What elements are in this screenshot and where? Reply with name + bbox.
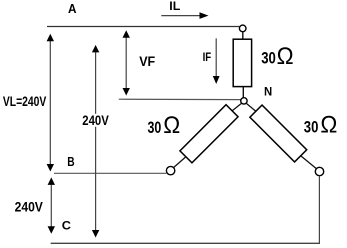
resistor R-A 30 ohm (vertical) bbox=[233, 39, 251, 86]
svg-text:Ω: Ω bbox=[320, 112, 337, 139]
svg-text:VL=240V: VL=240V bbox=[3, 93, 47, 109]
svg-text:IF: IF bbox=[203, 50, 212, 64]
resistor R-B 30 ohm (left diagonal) bbox=[180, 105, 238, 163]
wire node N to resistor B lead bbox=[232, 103, 241, 111]
arrow 240V (B to C) bbox=[48, 177, 55, 233]
svg-text:30: 30 bbox=[304, 118, 319, 137]
arrow 240V (A to C) bbox=[92, 45, 99, 238]
wire phase B bbox=[54, 172, 166, 174]
terminal A bbox=[239, 25, 246, 32]
wire terminal A to resistor bbox=[242, 32, 244, 39]
svg-text:C: C bbox=[62, 218, 71, 232]
arrow VL (line voltage) bbox=[47, 34, 54, 172]
arrow IF bbox=[213, 38, 220, 84]
wire phase A top bbox=[47, 26, 239, 28]
svg-text:A: A bbox=[68, 1, 77, 16]
arrow VF (phase voltage) bbox=[123, 30, 130, 95]
svg-text:30: 30 bbox=[148, 118, 162, 137]
svg-text:VF: VF bbox=[139, 53, 155, 69]
svg-text:B: B bbox=[67, 155, 74, 169]
wire resistor to node N bbox=[242, 87, 244, 98]
wire resistor C lead to terminal C bbox=[301, 156, 317, 169]
wire node N to resistor C lead bbox=[246, 103, 256, 111]
terminal C bbox=[315, 167, 323, 175]
node N bbox=[241, 98, 247, 104]
terminal B bbox=[166, 166, 174, 174]
svg-text:30: 30 bbox=[261, 48, 276, 67]
label 30 ohm (phase A) bbox=[261, 43, 293, 70]
svg-text:IL: IL bbox=[169, 1, 180, 13]
wire terminal C down to phase C bbox=[318, 176, 320, 244]
label 240V (A to C) bbox=[82, 113, 110, 128]
wire resistor B lead to terminal B bbox=[173, 157, 186, 169]
resistor R-C 30 ohm (right diagonal) bbox=[250, 105, 307, 162]
label 30 ohm (phase B) bbox=[148, 112, 181, 139]
svg-text:N: N bbox=[264, 84, 272, 98]
wire node N to VF reference point bbox=[119, 98, 241, 100]
wire phase C bottom bbox=[51, 242, 320, 244]
label 30 ohm (phase C) bbox=[304, 112, 338, 139]
svg-text:Ω: Ω bbox=[163, 112, 180, 139]
svg-text:240V: 240V bbox=[15, 200, 44, 215]
svg-text:Ω: Ω bbox=[277, 43, 294, 70]
arrow IL bbox=[161, 12, 208, 19]
svg-text:240V: 240V bbox=[82, 113, 109, 128]
